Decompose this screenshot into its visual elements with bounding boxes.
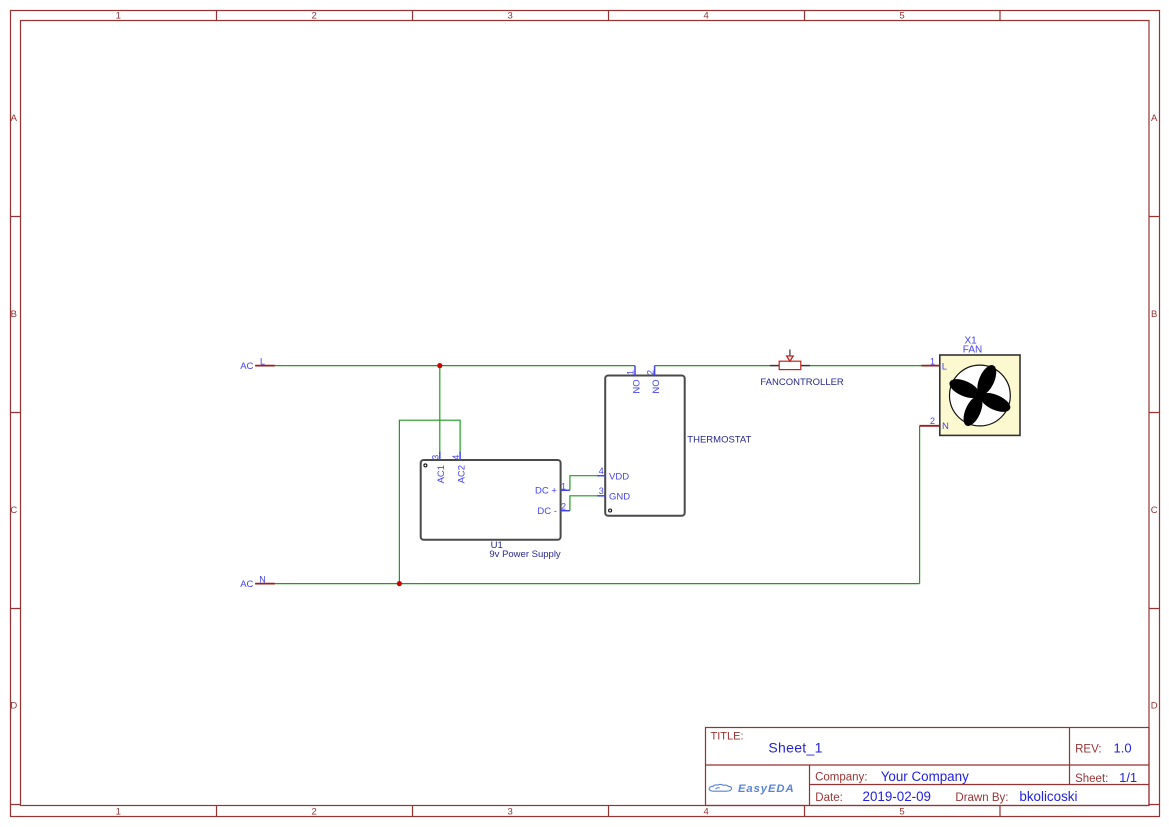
- svg-text:NO: NO: [631, 379, 642, 393]
- fan circle: [950, 365, 1011, 426]
- svg-text:5: 5: [899, 11, 904, 22]
- svg-text:REV:: REV:: [1075, 743, 1101, 755]
- svg-text:C: C: [1151, 505, 1158, 516]
- wire NO2 to fancontroller: [655, 365, 770, 367]
- wire DC+ to VDD: [570, 476, 597, 491]
- pin 1 L: [921, 365, 940, 367]
- svg-text:1: 1: [930, 356, 935, 366]
- wire U1 AC2 to AC_N: [399, 420, 460, 583]
- svg-text:5: 5: [899, 807, 904, 818]
- fan X1: [920, 336, 1020, 436]
- pin 3 GND: [597, 495, 605, 497]
- left lead: [770, 365, 779, 367]
- svg-text:Your Company: Your Company: [881, 769, 969, 784]
- net port AC_N: [240, 574, 275, 590]
- svg-text:DC +: DC +: [535, 486, 557, 497]
- svg-text:3: 3: [508, 11, 513, 22]
- svg-text:A: A: [1151, 113, 1158, 124]
- junction on AC_N: [397, 581, 402, 586]
- fan blades: [947, 362, 1013, 428]
- svg-text:4: 4: [451, 455, 461, 460]
- svg-text:C: C: [10, 505, 17, 516]
- svg-text:A: A: [11, 113, 18, 124]
- wire junction down to U1 AC1: [439, 366, 441, 452]
- fan controller: [760, 350, 844, 388]
- svg-text:TITLE:: TITLE:: [711, 731, 744, 743]
- svg-text:D: D: [10, 701, 17, 712]
- svg-text:D: D: [1151, 701, 1158, 712]
- svg-text:4: 4: [703, 11, 708, 22]
- svg-text:1: 1: [626, 370, 636, 375]
- junction on AC_L: [437, 363, 442, 368]
- pin 2 N: [920, 425, 940, 427]
- wire DC- to GND: [570, 496, 597, 511]
- svg-text:AC1: AC1: [436, 465, 447, 483]
- svg-text:1: 1: [561, 481, 566, 491]
- svg-text:2: 2: [561, 502, 566, 512]
- svg-text:3: 3: [599, 486, 604, 496]
- pin 1 DC+: [561, 489, 570, 491]
- net port AC_L: [240, 357, 275, 373]
- power supply U1: [421, 451, 570, 560]
- svg-text:3: 3: [431, 455, 441, 460]
- pin 3 AC1: [439, 451, 441, 460]
- svg-text:B: B: [1151, 309, 1157, 320]
- svg-text:GND: GND: [609, 492, 630, 503]
- svg-text:Sheet:: Sheet:: [1075, 773, 1108, 785]
- svg-text:Drawn By:: Drawn By:: [955, 792, 1008, 804]
- svg-text:1/1: 1/1: [1119, 770, 1137, 785]
- wire AC_N horizontal: [275, 583, 920, 585]
- svg-text:Company:: Company:: [815, 772, 867, 784]
- svg-text:2: 2: [312, 11, 317, 22]
- svg-text:VDD: VDD: [609, 471, 629, 482]
- svg-text:AC: AC: [240, 579, 253, 590]
- svg-text:1: 1: [116, 807, 121, 818]
- svg-text:4: 4: [703, 807, 708, 818]
- svg-text:FAN: FAN: [963, 345, 982, 356]
- svg-text:EasyEDA: EasyEDA: [738, 783, 795, 795]
- svg-text:2: 2: [312, 807, 317, 818]
- svg-text:Sheet_1: Sheet_1: [768, 739, 822, 755]
- svg-text:2019-02-09: 2019-02-09: [863, 789, 932, 804]
- svg-text:AC: AC: [240, 361, 253, 372]
- svg-text:9v Power Supply: 9v Power Supply: [489, 549, 561, 560]
- svg-text:bkolicoski: bkolicoski: [1019, 789, 1077, 804]
- svg-text:AC2: AC2: [457, 465, 468, 483]
- thermostat: [597, 366, 751, 516]
- wire AC_L to NO1: [275, 365, 635, 367]
- svg-text:L: L: [942, 361, 947, 372]
- svg-text:4: 4: [599, 466, 604, 476]
- body: [779, 361, 801, 369]
- svg-text:1: 1: [116, 11, 121, 22]
- fan body: [940, 355, 1020, 435]
- svg-text:2: 2: [930, 416, 935, 426]
- pin 2 DC-: [561, 510, 570, 512]
- wire fan N vertical: [919, 426, 921, 584]
- svg-text:3: 3: [508, 807, 513, 818]
- svg-text:FANCONTROLLER: FANCONTROLLER: [760, 377, 844, 388]
- arrow head: [787, 356, 793, 361]
- svg-text:Date:: Date:: [815, 792, 843, 804]
- svg-text:2: 2: [645, 370, 655, 375]
- pin 2 NO: [654, 366, 656, 376]
- svg-text:B: B: [11, 309, 17, 320]
- svg-text:NO: NO: [651, 379, 662, 393]
- svg-text:N: N: [942, 421, 949, 432]
- svg-text:1.0: 1.0: [1114, 740, 1132, 755]
- right lead: [801, 365, 810, 367]
- pin 4 AC2: [459, 451, 461, 460]
- wire fancontroller to fan pin1: [810, 365, 921, 367]
- pin 1 NO: [634, 366, 636, 376]
- svg-text:THERMOSTAT: THERMOSTAT: [687, 434, 751, 445]
- svg-text:DC -: DC -: [537, 506, 557, 517]
- arrow stem: [789, 350, 791, 356]
- pin 4 VDD: [597, 475, 605, 477]
